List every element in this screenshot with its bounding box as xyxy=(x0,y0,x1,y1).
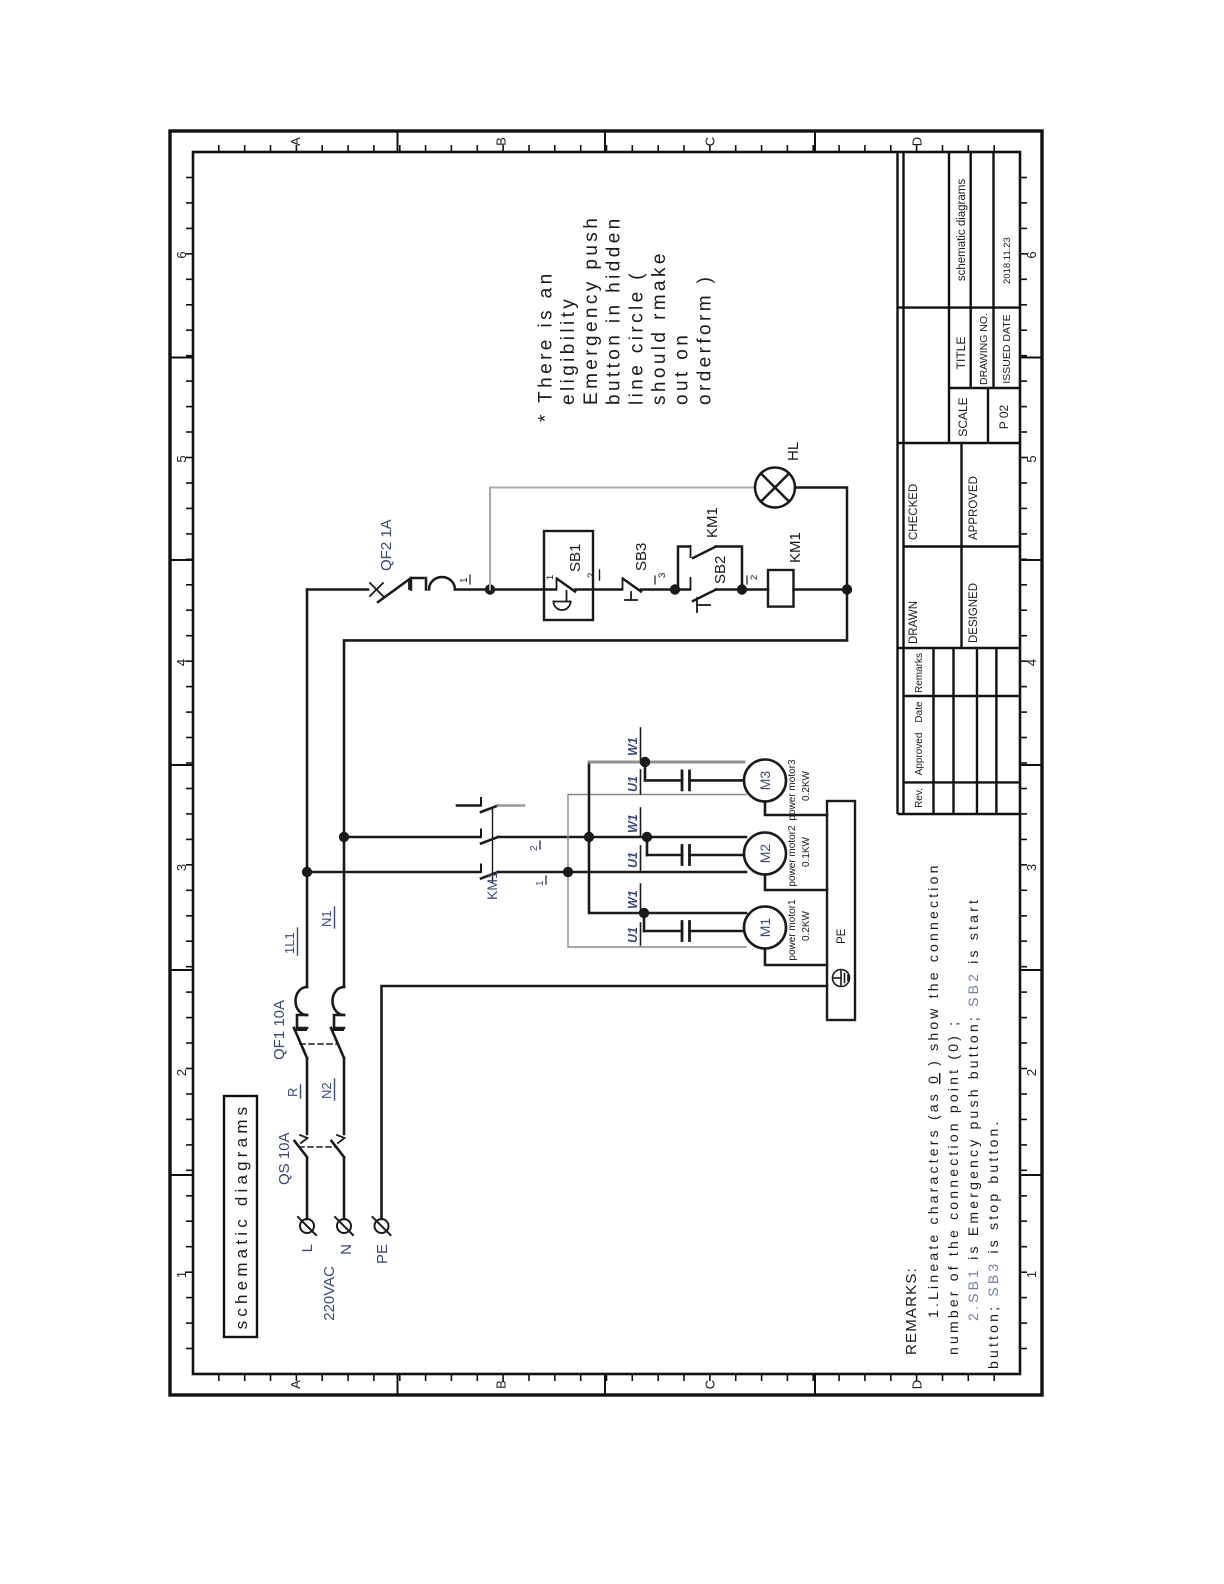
svg-text:C: C xyxy=(703,1380,718,1389)
svg-text:U1: U1 xyxy=(626,852,640,868)
svg-text:4: 4 xyxy=(174,659,189,666)
svg-text:C: C xyxy=(703,137,718,146)
svg-text:1: 1 xyxy=(459,577,470,583)
svg-text:DRAWN: DRAWN xyxy=(908,601,920,644)
svg-text:DESIGNED: DESIGNED xyxy=(968,583,980,643)
wire SB3 to node xyxy=(641,588,675,591)
remarks text block xyxy=(903,862,1001,1369)
bus U thin xyxy=(568,795,746,948)
svg-text:U1: U1 xyxy=(626,776,640,792)
svg-text:1: 1 xyxy=(535,880,546,886)
svg-text:eligibility: eligibility xyxy=(558,296,579,405)
svg-text:APPROVED: APPROVED xyxy=(968,476,980,540)
svg-text:TITLE: TITLE xyxy=(954,337,968,370)
wire N terminal to QS xyxy=(343,1158,346,1219)
capacitor C2 branch motor M2 xyxy=(642,832,742,865)
net label R xyxy=(285,1085,301,1098)
pin number 2 aux xyxy=(747,575,760,584)
pin number 3 SB3 xyxy=(655,573,668,584)
QF1 linkage dashed xyxy=(300,1043,338,1045)
net label 1L1 xyxy=(282,928,298,955)
svg-text:1: 1 xyxy=(174,1271,189,1278)
svg-text:ISSUED DATE: ISSUED DATE xyxy=(1001,314,1013,383)
junction node SB2 parallel bottom xyxy=(737,584,747,594)
net label N1 xyxy=(319,907,335,928)
svg-text:should rmake: should rmake xyxy=(649,250,670,405)
pin number 2 SB1 xyxy=(586,570,600,580)
drawing frame outer border xyxy=(170,131,1042,1395)
wire KM1 pole1 to bus1 xyxy=(498,871,568,874)
svg-text:HL: HL xyxy=(785,442,802,461)
wire node to SB1 xyxy=(490,588,556,591)
svg-text:W1: W1 xyxy=(626,890,640,909)
svg-text:2018.11.23: 2018.11.23 xyxy=(1002,237,1013,284)
net label U1 motor M1 xyxy=(626,923,641,945)
capacitor C3 branch motor M3 xyxy=(640,757,742,790)
net label W1 motor M2 xyxy=(626,808,641,835)
motor M1 xyxy=(744,907,786,949)
svg-text:orderform ): orderform ) xyxy=(694,274,715,405)
svg-text:line circle (: line circle ( xyxy=(626,270,647,405)
svg-text:M2: M2 xyxy=(757,844,773,864)
terminal N xyxy=(337,1219,351,1233)
terminal L xyxy=(300,1219,314,1233)
wire N rail QF1 to control return corner xyxy=(344,640,847,987)
svg-text:schematic diagrams: schematic diagrams xyxy=(232,1103,251,1330)
svg-text:A: A xyxy=(288,137,303,146)
svg-text:W1: W1 xyxy=(626,737,640,756)
stop button SB3 xyxy=(623,578,642,600)
terminal PE xyxy=(375,1219,389,1233)
net label 1 xyxy=(459,575,470,584)
wire node to coil xyxy=(742,588,768,591)
svg-text:1: 1 xyxy=(545,575,556,580)
svg-text:0.2KW: 0.2KW xyxy=(801,770,812,801)
svg-text:QF1 10A: QF1 10A xyxy=(271,1000,288,1060)
svg-text:PE: PE xyxy=(374,1244,391,1264)
wire coil to bottom node xyxy=(794,588,848,591)
wire number 2 at pole2 xyxy=(529,841,540,851)
net label W1 motor M3 xyxy=(626,728,641,760)
svg-text:N2: N2 xyxy=(319,1082,334,1099)
svg-text:3: 3 xyxy=(657,573,668,578)
wire KM1 pole2 drop from N rail xyxy=(344,836,480,839)
svg-text:SB3: SB3 xyxy=(633,543,650,571)
svg-text:5: 5 xyxy=(174,455,189,462)
svg-text:CHECKED: CHECKED xyxy=(908,484,920,540)
drawing frame inner border xyxy=(193,152,1020,1374)
svg-text:U1: U1 xyxy=(626,927,640,943)
junction node bus W with KM1 pole2 xyxy=(584,832,594,842)
junction node bus U with KM1 pole1 xyxy=(563,867,573,877)
svg-text:Rev.: Rev. xyxy=(914,788,925,808)
svg-text:DRAWING NO.: DRAWING NO. xyxy=(978,313,990,385)
contactor KM1 main pole 3 unused stub xyxy=(457,798,524,812)
wire KM1 pole2 to bus2 xyxy=(498,836,589,839)
wire PE run xyxy=(382,986,828,1219)
svg-text:Emergency push: Emergency push xyxy=(581,215,602,405)
svg-text:number of the connection point: number of the connection point (0) ; xyxy=(945,1019,961,1355)
svg-text:Approved: Approved xyxy=(914,733,925,776)
wire M3 W1 lead gray xyxy=(589,761,744,764)
wire M2 U1 lead xyxy=(568,871,746,874)
svg-text:N1: N1 xyxy=(319,910,334,927)
wire number 1 at pole1 xyxy=(535,876,546,886)
wire HL feed branch gray xyxy=(489,488,491,590)
wire KM1 pole1 drop from L rail xyxy=(307,871,480,874)
svg-text:5: 5 xyxy=(1024,455,1039,462)
svg-text:SB1: SB1 xyxy=(567,544,584,572)
svg-text:0.2KW: 0.2KW xyxy=(801,910,812,941)
svg-text:1.Lineate characters (as 0 ) s: 1.Lineate characters (as 0 ) show the co… xyxy=(925,862,941,1318)
svg-text:2: 2 xyxy=(749,575,760,580)
svg-text:QS 10A: QS 10A xyxy=(276,1132,293,1185)
svg-text:6: 6 xyxy=(174,251,189,258)
contactor coil KM1 xyxy=(768,570,794,607)
svg-text:D: D xyxy=(910,137,925,146)
svg-text:Date: Date xyxy=(914,701,925,723)
svg-text:2.SB1 is Emergency push button: 2.SB1 is Emergency push button; SB2 is s… xyxy=(965,897,981,1321)
note text about emergency push button xyxy=(536,215,716,422)
svg-text:0.1KW: 0.1KW xyxy=(801,836,812,867)
disconnect switch QS pole N xyxy=(332,1135,345,1157)
wire QS to QF1 pole N xyxy=(343,1058,346,1134)
zone ruler tick marks xyxy=(186,145,1027,1381)
svg-text:power motor3: power motor3 xyxy=(787,759,798,821)
svg-text:R: R xyxy=(285,1088,300,1097)
disconnect switch QS pole L xyxy=(295,1135,308,1157)
net label U1 motor M2 xyxy=(626,846,641,870)
svg-text:KM1: KM1 xyxy=(787,532,804,563)
junction node N rail to KM1 xyxy=(339,832,349,842)
svg-text:2: 2 xyxy=(529,845,540,851)
svg-text:1L1: 1L1 xyxy=(282,932,297,954)
title block header texts xyxy=(908,179,1013,808)
schematic diagrams label box xyxy=(224,1096,257,1337)
junction node HL branch xyxy=(485,584,495,594)
wire QS to QF1 pole L xyxy=(306,1058,309,1134)
svg-text:2: 2 xyxy=(174,1069,189,1076)
svg-text:* There is an: * There is an xyxy=(536,270,557,422)
wire M2 W1 lead xyxy=(589,836,746,839)
svg-text:out on: out on xyxy=(672,332,693,405)
wire motor PE lead xyxy=(765,949,827,966)
svg-text:2: 2 xyxy=(1024,1069,1039,1076)
value label motor power xyxy=(787,899,812,961)
emergency stop button SB1 with box xyxy=(544,531,593,620)
wire L terminal to QS xyxy=(306,1158,309,1219)
circuit breaker QF1 pole L xyxy=(294,987,307,1058)
junction node bottom rail xyxy=(842,584,852,594)
wire motor PE lead xyxy=(765,802,827,816)
motor M2 xyxy=(744,833,786,875)
svg-text:power motor2: power motor2 xyxy=(787,825,798,887)
earth ground symbol xyxy=(833,970,850,987)
PE bar xyxy=(827,801,855,1020)
wire HL to bottom rail xyxy=(795,488,847,641)
title block outline double top line xyxy=(898,152,1021,814)
svg-text:P 02: P 02 xyxy=(997,404,1011,429)
wire motor PE lead xyxy=(765,875,827,891)
indicator lamp HL xyxy=(755,468,795,508)
svg-text:W1: W1 xyxy=(626,814,640,833)
svg-text:power motor1: power motor1 xyxy=(787,899,798,961)
value label motor power xyxy=(787,759,812,821)
wire L rail QF1 to QF2 tap xyxy=(306,590,309,988)
svg-text:D: D xyxy=(910,1380,925,1389)
start button SB2 xyxy=(675,578,742,612)
capacitor C1 branch motor M1 xyxy=(639,908,742,941)
zone labels 1-6 and A-D xyxy=(174,137,1039,1389)
svg-text:Remarks: Remarks xyxy=(914,653,925,693)
value label motor power xyxy=(787,825,812,887)
auxiliary contact KM1 branch xyxy=(678,546,742,590)
svg-text:220VAC: 220VAC xyxy=(321,1266,338,1321)
svg-text:4: 4 xyxy=(1024,659,1039,666)
svg-text:SCALE: SCALE xyxy=(956,397,970,436)
svg-text:REMARKS:: REMARKS: xyxy=(903,1267,920,1355)
svg-text:A: A xyxy=(288,1380,303,1389)
motor M3 xyxy=(744,760,786,802)
svg-text:PE: PE xyxy=(836,928,848,944)
svg-text:KM1: KM1 xyxy=(704,507,721,538)
svg-text:6: 6 xyxy=(1024,251,1039,258)
svg-text:2: 2 xyxy=(586,573,597,578)
junction node SB2 parallel top xyxy=(670,584,680,594)
svg-text:N: N xyxy=(338,1244,355,1255)
wire QF2 to node xyxy=(455,588,490,591)
net label N2 xyxy=(319,1079,335,1100)
junction node L rail to KM1 xyxy=(302,867,312,877)
svg-text:B: B xyxy=(494,137,509,146)
svg-text:L: L xyxy=(299,1244,316,1252)
svg-text:1: 1 xyxy=(1024,1271,1039,1278)
wire HL drop xyxy=(490,487,755,489)
circuit breaker QF2 xyxy=(370,577,455,602)
svg-text:M1: M1 xyxy=(757,918,773,938)
svg-text:button; SB3 is stop button.: button; SB3 is stop button. xyxy=(985,1118,1001,1369)
zone division lines xyxy=(170,131,1042,1395)
wire SB1 to SB3 xyxy=(575,588,622,591)
KM1 main linkage xyxy=(492,808,494,882)
net label W1 motor M1 xyxy=(626,884,641,911)
svg-text:QF2 1A: QF2 1A xyxy=(378,519,395,571)
svg-text:3: 3 xyxy=(1024,864,1039,871)
svg-text:3: 3 xyxy=(174,864,189,871)
svg-text:KM1: KM1 xyxy=(484,871,500,900)
svg-text:SB2: SB2 xyxy=(712,556,729,584)
svg-text:button in hidden: button in hidden xyxy=(604,215,625,405)
net label U1 motor M3 xyxy=(626,770,641,794)
contactor KM1 main pole 1 xyxy=(481,865,498,879)
svg-text:schematic diagrams: schematic diagrams xyxy=(956,179,968,282)
svg-text:M3: M3 xyxy=(757,771,773,791)
svg-text:B: B xyxy=(494,1380,509,1389)
bus W black xyxy=(589,762,746,913)
wire L rail corner down to QF2 xyxy=(307,588,368,591)
contactor KM1 main pole 2 xyxy=(481,830,498,844)
circuit breaker QF1 pole N xyxy=(331,987,344,1058)
QS linkage dashed xyxy=(299,1146,337,1148)
